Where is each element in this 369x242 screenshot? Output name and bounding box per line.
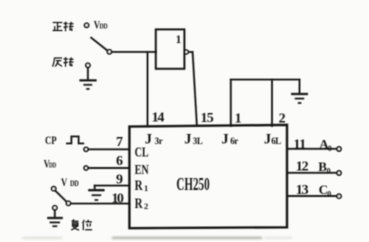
svg-text:6L: 6L <box>271 136 281 146</box>
svg-text:1: 1 <box>176 34 182 46</box>
svg-text:15: 15 <box>201 111 214 126</box>
svg-text:6r: 6r <box>230 136 238 146</box>
svg-text:J: J <box>184 131 191 147</box>
svg-text:EN: EN <box>135 161 149 177</box>
svg-text:DD: DD <box>70 179 79 188</box>
svg-text:R: R <box>135 178 144 194</box>
svg-text:DD: DD <box>49 162 57 170</box>
svg-text:0: 0 <box>327 190 331 199</box>
svg-text:13: 13 <box>296 183 309 198</box>
svg-text:J: J <box>264 131 271 147</box>
svg-text:CL: CL <box>135 144 149 160</box>
svg-text:3L: 3L <box>193 136 203 146</box>
svg-text:2: 2 <box>144 201 148 211</box>
svg-text:3r: 3r <box>155 136 163 146</box>
svg-text:0: 0 <box>328 144 332 153</box>
svg-text:9: 9 <box>116 173 123 188</box>
svg-text:14: 14 <box>152 111 165 126</box>
svg-text:CP: CP <box>45 135 57 147</box>
svg-text:1: 1 <box>235 111 242 126</box>
svg-text:10: 10 <box>112 192 124 207</box>
svg-text:J: J <box>221 131 228 147</box>
svg-text:0: 0 <box>327 166 331 175</box>
svg-text:CH250: CH250 <box>176 175 209 194</box>
svg-text:R: R <box>135 195 144 211</box>
svg-text:7: 7 <box>116 135 123 150</box>
svg-text:1: 1 <box>144 183 148 193</box>
svg-text:2: 2 <box>279 111 286 126</box>
svg-text:6: 6 <box>116 154 123 169</box>
svg-text:12: 12 <box>296 160 309 175</box>
svg-text:V: V <box>61 177 68 189</box>
svg-text:11: 11 <box>293 138 306 153</box>
svg-text:DD: DD <box>99 23 107 31</box>
